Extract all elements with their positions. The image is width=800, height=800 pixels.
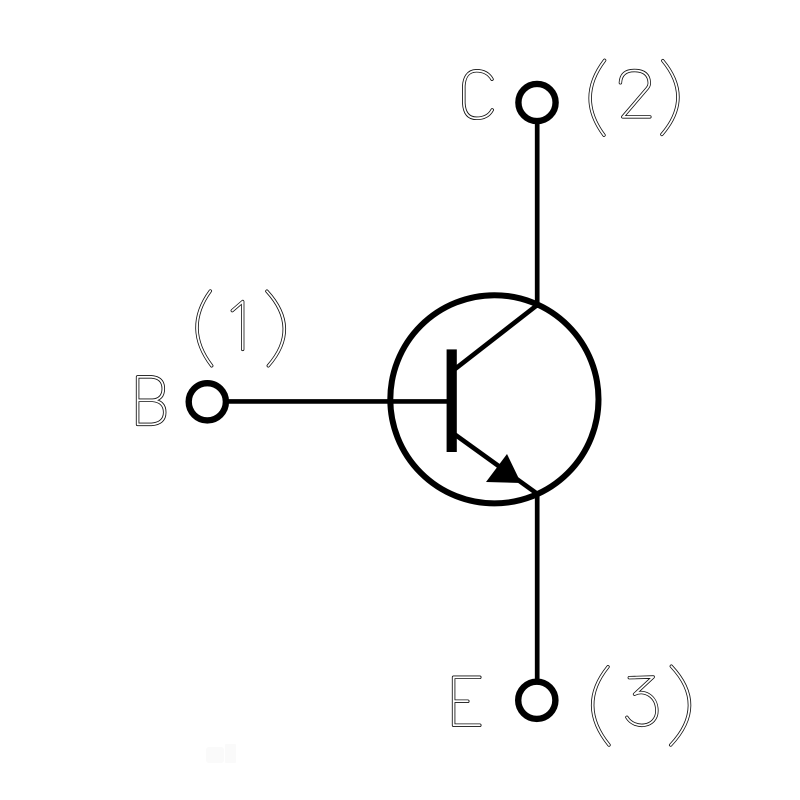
terminal B (pin 1): [189, 383, 226, 420]
wire: emitter vertical (circle to E terminal): [535, 492, 540, 681]
label (3) closing paren: [671, 666, 690, 745]
label (3) opening paren: [593, 667, 609, 745]
wire: base horizontal (B terminal to base bar): [227, 399, 449, 404]
label digit 1: [232, 302, 242, 350]
emitter lead diagonal: [454, 434, 538, 494]
terminal C (pin 2): [518, 84, 555, 121]
label E (outlined letter): [454, 677, 480, 725]
base bar: [447, 349, 457, 452]
emitter arrowhead: [486, 454, 521, 483]
label C (outlined letter): [464, 71, 492, 119]
terminal E (pin 3): [518, 682, 555, 719]
label (2) opening paren: [590, 60, 604, 135]
label B (outlined letter): [138, 377, 165, 425]
collector lead diagonal: [454, 305, 538, 370]
label (2) closing paren: [662, 61, 678, 135]
label digit 3: [627, 677, 657, 725]
label (1) closing paren: [267, 291, 284, 366]
watermark blob: [206, 744, 236, 763]
label (1) opening paren: [197, 291, 212, 366]
transistor Q1 circle: [390, 295, 598, 503]
wire: collector vertical (C terminal to circle): [535, 122, 540, 308]
label digit 2: [620, 71, 650, 117]
